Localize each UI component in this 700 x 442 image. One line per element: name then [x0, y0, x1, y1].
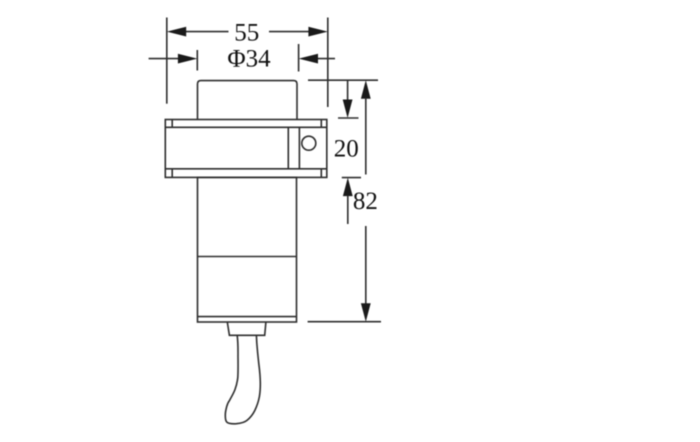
dim 55 extension line left	[166, 18, 168, 104]
flange inner vertical line 1	[287, 127, 289, 169]
dim 20 upper arrow line	[347, 80, 349, 100]
dim 55 arrow left	[167, 27, 186, 37]
flange tick top-left	[171, 120, 173, 128]
dim 82 line upper segment	[365, 98, 367, 175]
dim phi34 leader right	[318, 58, 336, 60]
flange inner top line	[165, 126, 326, 128]
flange tick top-right	[320, 120, 322, 128]
body bottom band line	[198, 316, 297, 318]
dim 20 lower arrow	[343, 178, 353, 197]
dim 82 upper arrow	[361, 80, 371, 99]
dim 82 lower arrow	[361, 303, 371, 322]
dim 55 line left segment	[186, 31, 229, 33]
dim 20 lower arrow line	[347, 196, 349, 225]
dim phi34 extension line right	[298, 44, 300, 72]
dim phi34 arrow right	[299, 54, 318, 64]
cable gland	[227, 322, 266, 335]
flange inner bottom line	[165, 168, 326, 170]
flange inner vertical line 2	[298, 127, 300, 169]
svg-text:20: 20	[334, 135, 359, 162]
dim 55 line right segment	[269, 31, 309, 33]
body divider line	[198, 256, 297, 258]
bottom extension line	[308, 321, 381, 323]
dim phi34 extension line left	[196, 50, 198, 71]
dim 82 line lower segment	[365, 226, 367, 304]
cable	[225, 336, 260, 424]
top cap (sensing head)	[198, 81, 298, 120]
body cylinder	[198, 177, 297, 322]
dim phi34 arrow left	[178, 54, 197, 64]
flange tick bottom-left	[171, 169, 173, 178]
dim 55 extension line right	[327, 18, 329, 108]
svg-text:82: 82	[353, 188, 378, 215]
indicator LED circle	[302, 136, 316, 150]
flange outer rectangle	[165, 120, 326, 178]
dim phi34 leader left	[149, 58, 179, 60]
svg-text:55: 55	[234, 19, 259, 46]
flange top tick	[338, 117, 359, 119]
dim 20 upper arrow	[343, 100, 353, 119]
top extension line from cap	[308, 79, 378, 81]
dim 55 arrow right	[308, 27, 327, 37]
flange bottom tick	[342, 177, 361, 179]
flange tick bottom-right	[320, 169, 322, 178]
svg-text:Φ34: Φ34	[227, 46, 271, 73]
